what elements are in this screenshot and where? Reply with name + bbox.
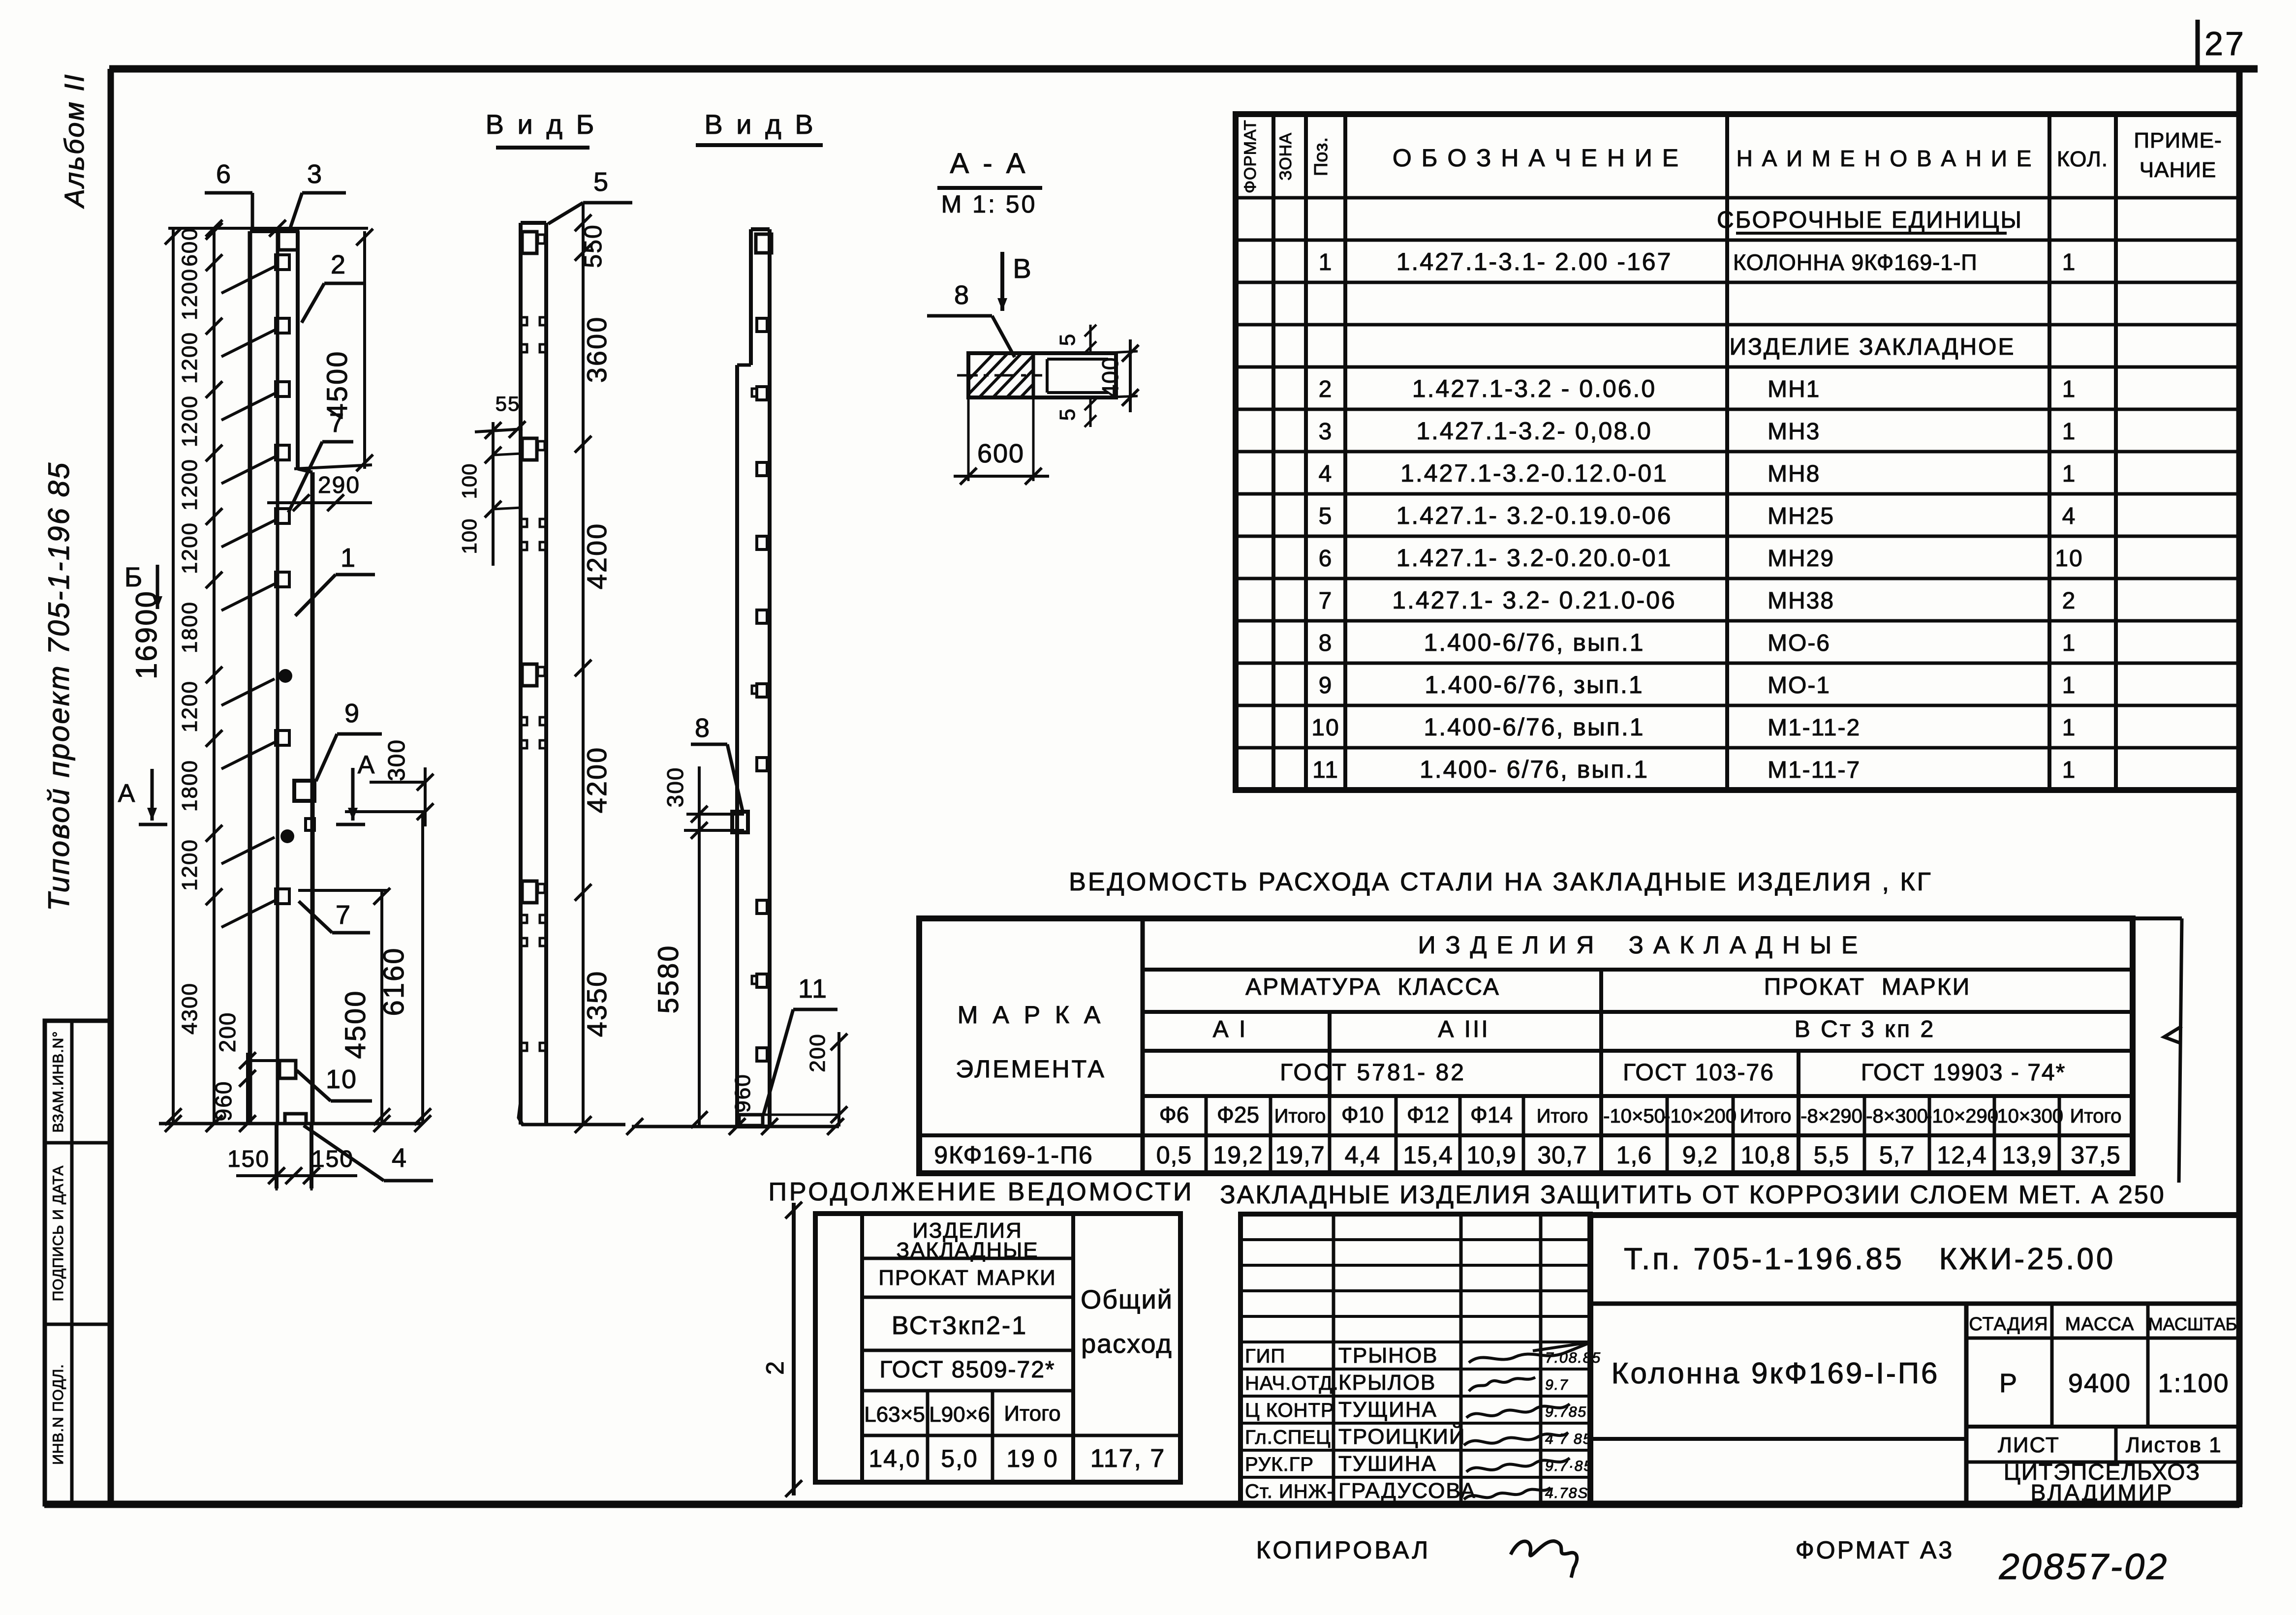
corbel on column <box>294 781 314 801</box>
svg-text:1.400-6/76, вып.1: 1.400-6/76, вып.1 <box>1424 629 1644 656</box>
weld dot lower <box>280 829 294 843</box>
svg-text:4,4: 4,4 <box>1345 1141 1381 1169</box>
svg-text:В: В <box>1013 253 1032 284</box>
steel table armatura/prokat split <box>1599 970 1603 1173</box>
svg-text:Б: Б <box>124 561 144 592</box>
continuation table data row line <box>862 1434 1180 1437</box>
svg-text:МН3: МН3 <box>1768 419 1820 445</box>
svg-text:Итого: Итого <box>1004 1402 1060 1426</box>
svg-text:4500: 4500 <box>340 989 372 1059</box>
svg-text:М А Р К А: М А Р К А <box>958 1001 1104 1029</box>
svg-text:15,4: 15,4 <box>1403 1141 1453 1169</box>
signature squiggles <box>1469 1342 1592 1363</box>
svg-text:1200: 1200 <box>178 458 202 511</box>
svg-text:4: 4 <box>1319 461 1333 487</box>
svg-text:960: 960 <box>731 1073 755 1112</box>
svg-text:19,7: 19,7 <box>1275 1141 1325 1169</box>
steel table GOST splits <box>1797 1051 1800 1173</box>
svg-text:ТРОИЦКИЙ: ТРОИЦКИЙ <box>1338 1424 1466 1449</box>
svg-text:1.400- 6/76, вып.1: 1.400- 6/76, вып.1 <box>1420 756 1649 783</box>
svg-text:9: 9 <box>344 699 360 728</box>
svg-text:1: 1 <box>2062 715 2077 741</box>
kopiroval signature <box>1511 1541 1577 1578</box>
view V bottom plate 11 <box>739 1115 763 1126</box>
dimension 4500 lower <box>380 890 383 1124</box>
svg-text:L90×6: L90×6 <box>929 1402 990 1427</box>
svg-text:8: 8 <box>1319 630 1333 656</box>
svg-text:Ц КОНТР.: Ц КОНТР. <box>1245 1400 1336 1421</box>
steel table right extension line <box>2133 916 2182 920</box>
section concrete outline <box>968 353 1116 397</box>
view V top cap <box>751 227 770 231</box>
svg-text:6: 6 <box>1319 546 1333 572</box>
svg-text:6: 6 <box>216 159 232 189</box>
svg-text:МН38: МН38 <box>1768 588 1834 614</box>
svg-text:ГОСТ 103-76: ГОСТ 103-76 <box>1623 1060 1774 1086</box>
svg-text:1.427.1- 3.2-0.20.0-01: 1.427.1- 3.2-0.20.0-01 <box>1396 544 1673 572</box>
svg-text:4.78Ѕ: 4.78Ѕ <box>1545 1485 1588 1501</box>
view V dim line 5580 <box>698 766 701 1127</box>
svg-text:А: А <box>118 779 136 808</box>
svg-text:1.427.1-3.2 - 0.06.0: 1.427.1-3.2 - 0.06.0 <box>1412 375 1656 402</box>
svg-text:МАСШТАБ: МАСШТАБ <box>2148 1314 2237 1334</box>
svg-text:117, 7: 117, 7 <box>1090 1444 1166 1473</box>
svg-text:ТУШИНА: ТУШИНА <box>1338 1452 1437 1476</box>
svg-text:КЖИ-25.00: КЖИ-25.00 <box>1939 1242 2116 1276</box>
svg-text:ПРОКАТ МАРКИ: ПРОКАТ МАРКИ <box>878 1266 1056 1290</box>
svg-text:300: 300 <box>662 767 688 808</box>
svg-text:ЗОНА: ЗОНА <box>1276 132 1295 181</box>
svg-text:А I: А I <box>1213 1016 1248 1042</box>
svg-text:О Б О З Н А Ч Е Н И Е: О Б О З Н А Ч Е Н И Е <box>1393 144 1680 172</box>
section channel lines <box>1032 355 1035 396</box>
plate 10 embedded <box>279 1061 296 1078</box>
section dim 400 <box>1129 339 1132 412</box>
svg-text:4: 4 <box>392 1143 407 1173</box>
svg-text:Колонна 9кФ169-І-П6: Колонна 9кФ169-І-П6 <box>1612 1357 1940 1390</box>
svg-text:ФОРМАТ: ФОРМАТ <box>1241 120 1260 193</box>
column foot plate 4 <box>285 1114 306 1124</box>
column lower right edge <box>310 472 315 1124</box>
continuation table outer box <box>815 1214 1180 1482</box>
svg-text:300: 300 <box>384 739 410 781</box>
svg-text:ИНВ.N ПОДЛ.: ИНВ.N ПОДЛ. <box>50 1364 66 1464</box>
svg-text:Общий: Общий <box>1081 1285 1173 1314</box>
svg-text:10: 10 <box>2055 546 2083 572</box>
svg-text:1: 1 <box>2062 757 2077 783</box>
svg-text:100: 100 <box>458 518 481 554</box>
svg-text:9КФ169-1-П6: 9КФ169-1-П6 <box>934 1141 1093 1169</box>
title block name cell <box>1964 1304 1969 1504</box>
svg-text:150: 150 <box>227 1146 270 1172</box>
elevation bottom dimension line <box>159 1122 423 1126</box>
dimension 290 <box>267 501 372 504</box>
view V step <box>737 364 751 367</box>
svg-text:М1-11-2: М1-11-2 <box>1768 715 1861 741</box>
svg-text:В Ст 3 кп 2: В Ст 3 кп 2 <box>1795 1016 1935 1042</box>
section dim 5 top <box>1089 325 1092 351</box>
extension line at plate level <box>298 889 389 892</box>
svg-text:9400: 9400 <box>2068 1369 2131 1398</box>
svg-text:1.427.1-3.2- 0,08.0: 1.427.1-3.2- 0,08.0 <box>1416 417 1652 445</box>
view V top plate <box>756 234 772 253</box>
continuation table left bracket <box>792 1203 796 1495</box>
svg-text:ГОСТ 8509-72*: ГОСТ 8509-72* <box>879 1357 1055 1383</box>
svg-text:2: 2 <box>2062 588 2077 614</box>
sheet frame bottom line <box>44 1501 2239 1508</box>
svg-text:-10×200: -10×200 <box>1664 1105 1737 1127</box>
svg-text:1800: 1800 <box>178 601 202 653</box>
svg-text:4200: 4200 <box>581 522 612 590</box>
svg-text:2: 2 <box>1319 376 1333 402</box>
view V dim 300 <box>686 813 744 816</box>
column step at crane ledge <box>298 469 312 472</box>
svg-text:М1-11-7: М1-11-7 <box>1768 757 1861 783</box>
sheet frame top line <box>109 65 2258 73</box>
steel table marka column line <box>1141 918 1145 1173</box>
svg-text:9,2: 9,2 <box>1682 1141 1718 1169</box>
svg-text:Т.п. 705-1-196.85: Т.п. 705-1-196.85 <box>1624 1242 1904 1276</box>
svg-text:ПРИМЕ-: ПРИМЕ- <box>2134 128 2222 152</box>
svg-text:7: 7 <box>1319 588 1333 614</box>
svg-text:2: 2 <box>331 250 346 279</box>
svg-text:А: А <box>358 751 376 779</box>
svg-text:ТУЩИНА: ТУЩИНА <box>1338 1398 1437 1422</box>
svg-text:СБОРОЧНЫЕ ЕДИНИЦЫ: СБОРОЧНЫЕ ЕДИНИЦЫ <box>1717 207 2023 233</box>
title block project number row line <box>1590 1302 2239 1306</box>
svg-text:В и д Б: В и д Б <box>486 109 597 140</box>
svg-text:Ф6: Ф6 <box>1159 1102 1189 1127</box>
svg-text:-10×300: -10×300 <box>1990 1105 2063 1127</box>
svg-text:600: 600 <box>977 439 1024 468</box>
svg-text:200: 200 <box>215 1012 240 1053</box>
foot dimension line 150 150 <box>236 1174 357 1177</box>
svg-text:-10×290: -10×290 <box>1925 1105 1998 1127</box>
svg-text:ЧАНИЕ: ЧАНИЕ <box>2140 158 2216 182</box>
svg-text:МН1: МН1 <box>1768 376 1820 402</box>
ledge extension line <box>294 465 372 469</box>
svg-text:1.400-6/76, зып.1: 1.400-6/76, зып.1 <box>1425 671 1644 699</box>
svg-text:Поз.: Поз. <box>1311 137 1332 176</box>
svg-text:2: 2 <box>761 1360 789 1375</box>
svg-text:1200: 1200 <box>178 395 202 447</box>
svg-text:3: 3 <box>307 159 323 189</box>
svg-text:КОЛ.: КОЛ. <box>2057 147 2108 171</box>
svg-text:ВЛАДИМИР: ВЛАДИМИР <box>2031 1480 2174 1505</box>
svg-text:150: 150 <box>311 1146 354 1172</box>
continuation table subcolumns <box>926 1391 930 1482</box>
svg-text:ТРЫНОВ: ТРЫНОВ <box>1338 1343 1438 1368</box>
view B column outline <box>519 223 523 1125</box>
svg-text:Итого: Итого <box>2070 1105 2122 1127</box>
steel table header row lines <box>1143 968 2133 972</box>
svg-text:4200: 4200 <box>581 746 612 814</box>
svg-text:ИЗДЕЛИЕ ЗАКЛАДНОЕ: ИЗДЕЛИЕ ЗАКЛАДНОЕ <box>1730 334 2016 360</box>
section centerline <box>957 374 1042 377</box>
svg-text:Н А И М Е Н О В А Н И Е: Н А И М Е Н О В А Н И Е <box>1737 146 2033 171</box>
view B column foot <box>519 1102 546 1125</box>
svg-text:1.400-6/76, вып.1: 1.400-6/76, вып.1 <box>1424 713 1644 741</box>
svg-text:1: 1 <box>2062 376 2077 402</box>
svg-text:1.427.1-3.2-0.12.0-01: 1.427.1-3.2-0.12.0-01 <box>1400 459 1668 487</box>
rebar diagonal marks <box>221 267 275 293</box>
svg-text:1:100: 1:100 <box>2158 1369 2229 1398</box>
svg-text:АРМАТУРА КЛАССА: АРМАТУРА КЛАССА <box>1245 974 1500 1000</box>
steel table outer box <box>919 918 2133 1173</box>
sheet frame left line <box>108 69 114 1504</box>
svg-text:ГРАДУСОВА: ГРАДУСОВА <box>1338 1479 1476 1503</box>
svg-text:100: 100 <box>458 463 481 499</box>
svg-text:27: 27 <box>2204 25 2246 62</box>
svg-text:НАЧ.ОТД.: НАЧ.ОТД. <box>1245 1372 1339 1394</box>
view V column upper left face <box>749 229 753 365</box>
svg-text:ГОСТ 5781- 82: ГОСТ 5781- 82 <box>1280 1060 1466 1086</box>
steel table AI/AIII split <box>1328 1012 1332 1096</box>
view B big plates <box>522 232 537 253</box>
svg-text:И З Д Е Л И Я З А К Л А Д Н: И З Д Е Л И Я З А К Л А Д Н Ы Е <box>1418 931 1860 959</box>
svg-text:ВЕДОМОСТЬ РАСХОДА СТАЛИ НА З: ВЕДОМОСТЬ РАСХОДА СТАЛИ НА ЗАКЛАДНЫЕ ИЗД… <box>1069 868 1933 896</box>
svg-text:Ф25: Ф25 <box>1217 1102 1259 1127</box>
svg-text:3: 3 <box>1319 419 1333 445</box>
corbel plate small <box>306 819 314 830</box>
svg-text:5,7: 5,7 <box>1879 1141 1915 1169</box>
svg-text:13,9: 13,9 <box>2002 1141 2051 1169</box>
svg-text:Ф14: Ф14 <box>1470 1102 1513 1127</box>
svg-text:960: 960 <box>211 1081 236 1122</box>
view V bottom cap <box>737 1125 770 1128</box>
column inner face line <box>276 231 279 1124</box>
svg-text:Итого: Итого <box>1274 1105 1326 1127</box>
svg-text:В и д В: В и д В <box>704 109 816 140</box>
svg-text:А III: А III <box>1438 1016 1489 1042</box>
view B dim line <box>582 204 585 1125</box>
svg-text:600: 600 <box>178 227 202 266</box>
svg-text:ЛИСТ: ЛИСТ <box>1998 1433 2060 1457</box>
column foot left line <box>275 1124 279 1188</box>
svg-text:МО-6: МО-6 <box>1768 630 1831 656</box>
svg-text:ЭЛЕМЕНТА: ЭЛЕМЕНТА <box>956 1055 1106 1083</box>
svg-text:ПОДПИСЬ И ДАТА: ПОДПИСЬ И ДАТА <box>50 1165 66 1302</box>
svg-text:Итого: Итого <box>1740 1105 1792 1127</box>
svg-text:1: 1 <box>2062 461 2077 487</box>
svg-text:1.427.1- 3.2- 0.21.0-06: 1.427.1- 3.2- 0.21.0-06 <box>1392 586 1676 614</box>
svg-text:ВЗАМ.ИНВ.N°: ВЗАМ.ИНВ.N° <box>50 1031 66 1133</box>
svg-text:200: 200 <box>806 1033 830 1072</box>
svg-text:5: 5 <box>593 167 609 197</box>
svg-text:МО-1: МО-1 <box>1768 672 1831 699</box>
view V corbel plate <box>732 812 748 832</box>
dimension 4500 upper <box>363 231 366 469</box>
column upper right edge <box>296 231 300 469</box>
svg-text:-8×290: -8×290 <box>1800 1105 1862 1127</box>
steel table column lines <box>1205 1096 1208 1173</box>
svg-text:Ф12: Ф12 <box>1407 1102 1449 1127</box>
svg-text:-8×300: -8×300 <box>1866 1105 1928 1127</box>
svg-text:14,0: 14,0 <box>869 1445 920 1472</box>
svg-text:КОЛОННА 9КФ169-1-П: КОЛОННА 9КФ169-1-П <box>1733 250 1978 275</box>
section dim 600 <box>967 399 970 481</box>
svg-text:19 0: 19 0 <box>1006 1445 1058 1472</box>
signature block box <box>1241 1214 1590 1504</box>
svg-text:8: 8 <box>954 280 970 310</box>
svg-text:1.427.1-3.1- 2.00 -167: 1.427.1-3.1- 2.00 -167 <box>1396 248 1673 275</box>
svg-text:10,8: 10,8 <box>1740 1141 1790 1169</box>
svg-text:4350: 4350 <box>581 970 612 1037</box>
svg-text:МН29: МН29 <box>1768 546 1834 572</box>
svg-text:4500: 4500 <box>321 350 353 419</box>
svg-text:1800: 1800 <box>178 760 202 812</box>
parts table row lines <box>1236 196 2239 200</box>
view B small plates <box>521 317 527 325</box>
parts table outer box <box>1236 114 2239 790</box>
svg-text:1,6: 1,6 <box>1616 1141 1652 1169</box>
svg-text:5,0: 5,0 <box>941 1445 978 1472</box>
column foot right line <box>310 1124 313 1188</box>
continuation table verticals <box>860 1214 864 1482</box>
sheet frame right line <box>2236 69 2243 1504</box>
svg-text:550: 550 <box>579 224 607 268</box>
title block stage mass scale header <box>1966 1337 2239 1340</box>
svg-text:ФОРМАТ А3: ФОРМАТ А3 <box>1796 1536 1954 1564</box>
svg-text:1: 1 <box>2062 249 2077 275</box>
svg-text:4: 4 <box>2062 503 2077 529</box>
svg-text:10,9: 10,9 <box>1466 1141 1516 1169</box>
svg-text:19,2: 19,2 <box>1213 1141 1263 1169</box>
page number tick <box>2196 20 2200 69</box>
view V column lower left face <box>735 365 739 1127</box>
view direction arrow V <box>1000 252 1004 311</box>
dimension 300 corbel bottom line <box>345 810 425 813</box>
svg-text:1: 1 <box>2062 672 2077 699</box>
svg-text:СТАДИЯ: СТАДИЯ <box>1969 1314 2048 1335</box>
svg-text:30,7: 30,7 <box>1537 1141 1587 1169</box>
svg-text:1200: 1200 <box>178 268 202 320</box>
svg-text:1: 1 <box>1319 249 1333 275</box>
svg-text:1200: 1200 <box>178 332 202 384</box>
svg-text:ГИП: ГИП <box>1245 1345 1285 1367</box>
title block outer box <box>1590 1215 2239 1504</box>
svg-text:-10×50: -10×50 <box>1603 1105 1665 1127</box>
svg-text:Гл.СПЕЦ.: Гл.СПЕЦ. <box>1245 1427 1337 1448</box>
svg-text:11: 11 <box>1312 757 1339 783</box>
svg-text:ЗАКЛАДНЫЕ: ЗАКЛАДНЫЕ <box>896 1238 1038 1262</box>
svg-text:КРЫЛОВ: КРЫЛОВ <box>1338 1371 1436 1395</box>
svg-text:А - А: А - А <box>950 148 1028 180</box>
svg-text:ПРОКАТ МАРКИ: ПРОКАТ МАРКИ <box>1764 974 1971 1000</box>
inventory strip box <box>45 1021 110 1504</box>
svg-text:Р: Р <box>1999 1369 2018 1398</box>
svg-text:10: 10 <box>326 1065 357 1094</box>
svg-text:290: 290 <box>318 472 360 498</box>
svg-text:КОПИРОВАЛ: КОПИРОВАЛ <box>1256 1536 1430 1564</box>
dimension 300 corbel top line <box>370 781 425 784</box>
view V bottom dim line <box>632 1125 839 1128</box>
parts table column lines <box>1272 114 1275 790</box>
column top anchor plate <box>279 231 298 250</box>
svg-text:37,5: 37,5 <box>2071 1141 2120 1169</box>
svg-text:5,5: 5,5 <box>1814 1141 1850 1169</box>
svg-text:ВСт3кп2-1: ВСт3кп2-1 <box>892 1311 1027 1340</box>
svg-text:L63×5: L63×5 <box>864 1402 925 1427</box>
svg-text:10: 10 <box>1311 715 1339 741</box>
svg-text:55: 55 <box>496 392 521 415</box>
elevation overall dimension line 16900 <box>172 228 175 1124</box>
svg-text:1: 1 <box>2062 419 2077 445</box>
svg-text:400: 400 <box>1097 357 1123 397</box>
view V column right face <box>768 229 772 1127</box>
svg-text:ГОСТ 19903 - 74*: ГОСТ 19903 - 74* <box>1861 1060 2066 1086</box>
svg-text:5580: 5580 <box>652 944 684 1013</box>
svg-text:ПРОДОЛЖЕНИЕ ВЕДОМОСТИ: ПРОДОЛЖЕНИЕ ВЕДОМОСТИ <box>769 1178 1194 1206</box>
svg-text:1200: 1200 <box>178 522 202 574</box>
svg-text:1200: 1200 <box>178 839 202 891</box>
svg-text:расход: расход <box>1081 1329 1173 1359</box>
view V side plates <box>757 318 767 332</box>
svg-text:5: 5 <box>1319 503 1333 529</box>
svg-text:1: 1 <box>2062 630 2077 656</box>
signature block columns <box>1332 1214 1335 1504</box>
svg-text:20857-02: 20857-02 <box>1999 1546 2169 1587</box>
svg-text:9: 9 <box>1319 672 1333 699</box>
continuation table header rows <box>862 1257 1073 1260</box>
embedded plates on column face <box>276 255 289 270</box>
svg-text:11: 11 <box>798 974 828 1004</box>
svg-text:Типовой проект 705-1-196 85: Типовой проект 705-1-196 85 <box>42 461 75 912</box>
svg-text:М 1: 50: М 1: 50 <box>941 190 1037 218</box>
svg-text:9.7: 9.7 <box>1545 1377 1569 1393</box>
svg-text:12,4: 12,4 <box>1937 1141 1986 1169</box>
svg-text:Альбом II: Альбом II <box>59 73 90 209</box>
svg-text:Ст. ИНЖ-: Ст. ИНЖ- <box>1245 1481 1334 1502</box>
svg-text:8: 8 <box>695 713 711 743</box>
svg-text:МАССА: МАССА <box>2065 1314 2135 1335</box>
dimension 6160 <box>421 812 424 1124</box>
signature block rows <box>1241 1238 1590 1241</box>
svg-text:1.427.1- 3.2-0.19.0-06: 1.427.1- 3.2-0.19.0-06 <box>1396 502 1673 529</box>
svg-text:5: 5 <box>1055 408 1080 421</box>
svg-text:РУК.ГР: РУК.ГР <box>1245 1454 1314 1475</box>
column left face line <box>248 231 252 1124</box>
elevation chain dimension line <box>213 228 216 1124</box>
svg-text:1: 1 <box>341 543 356 573</box>
svg-text:МН8: МН8 <box>1768 461 1820 487</box>
svg-text:0,5: 0,5 <box>1156 1141 1192 1169</box>
svg-text:Итого: Итого <box>1537 1105 1588 1127</box>
svg-text:Ф10: Ф10 <box>1341 1102 1384 1127</box>
svg-text:1200: 1200 <box>178 680 202 732</box>
svg-text:Листов 1: Листов 1 <box>2126 1433 2222 1457</box>
weld dot upper <box>279 669 292 683</box>
svg-text:МН25: МН25 <box>1768 503 1834 529</box>
title block list row <box>1966 1425 2239 1429</box>
svg-text:5: 5 <box>1055 333 1080 346</box>
elevation top extension line <box>168 227 368 230</box>
svg-text:4300: 4300 <box>178 982 202 1035</box>
steel table extension hook arrow <box>2164 1026 2182 1043</box>
svg-text:ЗАКЛАДНЫЕ ИЗДЕЛИЯ ЗАЩИТИТЬ ОТ: ЗАКЛАДНЫЕ ИЗДЕЛИЯ ЗАЩИТИТЬ ОТ КОРРОЗИИ С… <box>1220 1181 2165 1209</box>
view V plate notches <box>752 389 757 396</box>
section dim 5 bottom <box>1089 399 1092 427</box>
svg-text:7: 7 <box>336 900 351 930</box>
column top face <box>250 229 298 233</box>
svg-text:3600: 3600 <box>581 316 612 383</box>
